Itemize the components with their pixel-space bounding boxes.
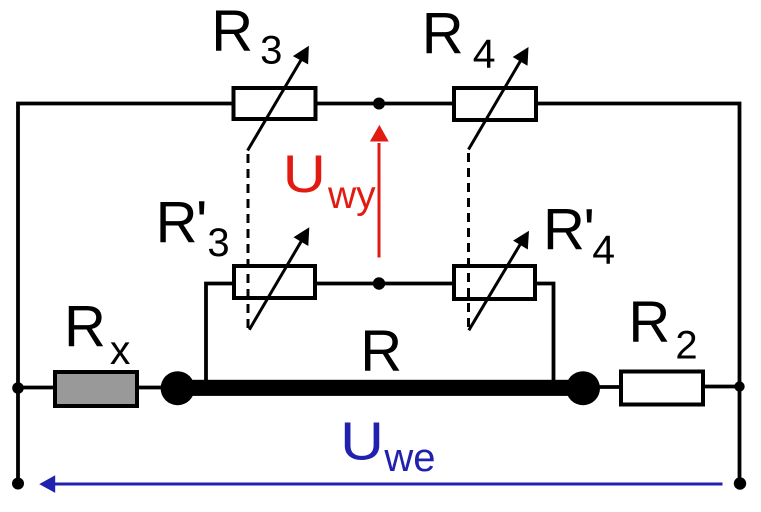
svg-text:U: U — [283, 145, 326, 204]
slide-wire resistor R (thick bar) — [170, 380, 591, 396]
wiper arrow of R3 — [248, 60, 301, 151]
wire: R'3 left branch down to slider bar — [206, 284, 233, 385]
wire: left vertical + top-left segment — [18, 104, 233, 484]
svg-text:3: 3 — [260, 29, 282, 73]
voltage arrow Uwe (blue, pointing left) — [53, 483, 723, 486]
node: middle centre — [373, 277, 385, 289]
svg-text:R: R — [628, 289, 670, 354]
svg-text:': ' — [196, 189, 208, 257]
node: left at Rx level — [12, 382, 24, 394]
wire: Rx to left slider dot — [137, 386, 168, 390]
svg-text:3: 3 — [207, 221, 229, 265]
svg-text:R: R — [543, 197, 585, 262]
node: bottom right — [734, 477, 746, 489]
wire: right slider dot to R2 — [594, 385, 622, 389]
svg-text:R: R — [156, 190, 198, 255]
svg-text:4: 4 — [473, 31, 496, 77]
node: top centre — [373, 98, 385, 110]
slider contact dot left — [161, 371, 195, 405]
coupling dashed line R3-R'3 — [247, 154, 250, 330]
svg-text:we: we — [383, 436, 435, 480]
voltage arrow Uwy (red, pointing up) — [378, 143, 381, 258]
svg-text:R: R — [64, 294, 106, 359]
svg-text:U: U — [340, 412, 384, 472]
wiper arrow of R'3 — [249, 240, 302, 330]
slider contact dot right — [566, 371, 600, 405]
node: right at R2 level — [734, 381, 744, 391]
resistor R'4 (box) — [454, 266, 535, 299]
svg-text:R: R — [360, 319, 402, 384]
svg-text:x: x — [110, 327, 131, 373]
node: bottom left — [12, 478, 24, 490]
wiper arrow of R4 — [469, 60, 522, 150]
svg-text:wy: wy — [327, 174, 376, 217]
wire: middle segment between R'3 and R'4 — [316, 282, 453, 286]
wire: R2 to right vertical — [703, 385, 740, 389]
resistor R2 (box) — [621, 372, 703, 405]
resistor R3 (box) — [234, 88, 316, 119]
resistor R'3 (box) — [234, 266, 315, 298]
wire: top-right segment + right vertical — [537, 104, 740, 484]
coupling dashed line R4-R'4 — [467, 153, 470, 327]
wire: R'4 right branch down to slider bar — [536, 284, 554, 385]
svg-text:2: 2 — [675, 323, 697, 367]
svg-text:R: R — [422, 1, 464, 66]
wiper arrow of R'4 — [469, 243, 521, 330]
wire: top middle segment between R3 and R4 — [316, 102, 453, 106]
resistor Rx (gray box) — [55, 372, 137, 406]
svg-text:4: 4 — [592, 227, 615, 273]
resistor R4 (box) — [454, 88, 536, 120]
wire: left node to Rx — [18, 386, 56, 390]
svg-text:R: R — [211, 0, 253, 63]
